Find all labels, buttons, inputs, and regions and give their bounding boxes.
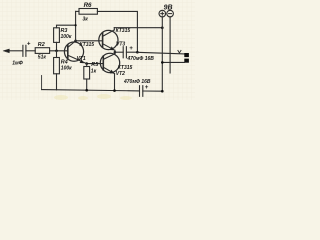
node R5 bottom xyxy=(85,89,88,92)
resistor R5 1к xyxy=(84,67,90,80)
node VT1 emitter / R5 xyxy=(85,62,88,65)
svg-text:3к: 3к xyxy=(83,16,89,22)
resistor R2 51к xyxy=(35,48,49,54)
svg-text:R2: R2 xyxy=(38,42,45,48)
wire R2 to base node xyxy=(50,50,68,52)
wire R6 right lead to output xyxy=(97,11,137,52)
svg-text:VT2: VT2 xyxy=(116,71,125,77)
svg-text:VT1: VT1 xyxy=(77,56,86,62)
wire battery + down xyxy=(161,17,163,92)
svg-text:КТ315: КТ315 xyxy=(116,28,131,34)
wire +9V top rail xyxy=(114,27,162,29)
svg-text:R6: R6 xyxy=(84,2,92,9)
wire R3 top xyxy=(57,25,76,28)
svg-text:100к: 100к xyxy=(61,65,72,71)
resistor R4 100к xyxy=(54,58,60,74)
node output xyxy=(136,51,139,54)
wire output line to phones xyxy=(137,52,184,54)
svg-text:9В: 9В xyxy=(164,4,173,11)
node base VT1 xyxy=(55,50,58,53)
wire battery - down xyxy=(169,17,171,73)
capacitor C1 1мФ xyxy=(22,45,24,56)
svg-text:+: + xyxy=(145,85,149,91)
battery terminal - xyxy=(167,10,174,17)
svg-text:+: + xyxy=(129,46,133,52)
wire VT3 collector to +rail xyxy=(113,28,115,30)
svg-text:R5: R5 xyxy=(91,62,99,68)
wire R6 left lead xyxy=(76,10,79,12)
svg-text:VT3: VT3 xyxy=(116,42,125,48)
wire R3 bottom xyxy=(56,42,58,50)
svg-text:1мФ: 1мФ xyxy=(12,60,23,66)
svg-text:+: + xyxy=(27,41,31,47)
transistor VT2 KT315 xyxy=(100,53,119,73)
plug notch xyxy=(178,50,181,53)
wire VT3 emitter down xyxy=(114,50,116,52)
capacitor C3 470мФ in rail xyxy=(139,86,141,97)
svg-text:1к: 1к xyxy=(91,69,97,75)
wire VT2 emitter down xyxy=(114,74,116,91)
node bottom rail right xyxy=(161,90,164,93)
battery terminal + xyxy=(159,10,166,17)
svg-text:КТ315: КТ315 xyxy=(80,42,95,48)
wire VT1 emitter node to VT2 base xyxy=(87,63,104,65)
wire phone bottom xyxy=(162,61,184,63)
bottom rail left end up xyxy=(41,76,43,90)
wire R4 top xyxy=(56,51,58,58)
wire node to C2 xyxy=(115,51,123,53)
node phone bottom xyxy=(161,61,164,64)
node VT3 emitter / VT2 collector xyxy=(114,51,117,54)
node R3/R6 xyxy=(75,24,77,26)
transistor VT3 KT315 xyxy=(99,30,118,50)
resistor R3 100к xyxy=(54,28,60,43)
node VT2 emitter bottom xyxy=(113,89,116,92)
wire collector VT1 up to R6 xyxy=(75,11,77,40)
wire R5 top xyxy=(86,64,88,67)
input arrow xyxy=(9,50,23,52)
svg-text:51к: 51к xyxy=(38,55,47,61)
resistor R6 3к xyxy=(79,9,97,15)
wire R5 bottom xyxy=(86,79,88,90)
paper background xyxy=(0,0,195,100)
wire C1 to R2 xyxy=(26,50,35,52)
transistor VT1 KT315 xyxy=(64,41,86,64)
wire C2 to output node xyxy=(126,51,137,53)
node top rail / battery + xyxy=(161,26,164,29)
capacitor C2 470мФ xyxy=(122,47,124,58)
svg-text:100к: 100к xyxy=(61,34,72,40)
bottom rail xyxy=(42,90,163,92)
svg-text:470мФ 16В: 470мФ 16В xyxy=(126,56,154,62)
node collector VT1 xyxy=(74,40,77,43)
faint page stain bottom xyxy=(54,94,132,100)
headphone BF1 xyxy=(184,53,189,57)
wire VT1 collector to VT3 base xyxy=(76,40,103,42)
wire R4 bottom xyxy=(56,74,58,90)
wire VT2 collector up xyxy=(114,52,116,54)
